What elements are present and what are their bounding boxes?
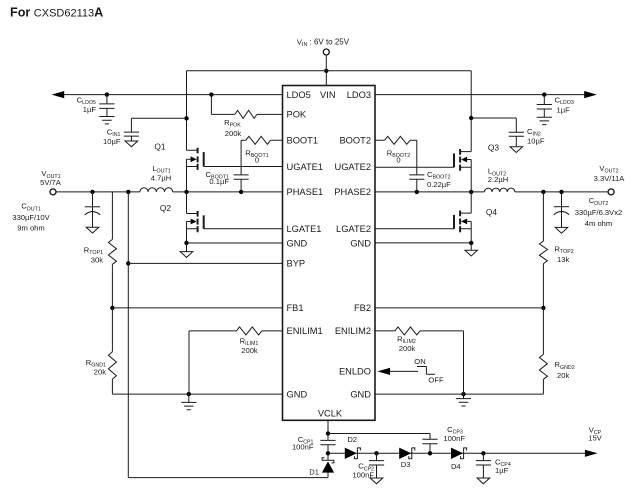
junction D1 node [326, 451, 330, 455]
wire FB1 [112, 307, 282, 309]
junction FB2 node [541, 306, 545, 310]
junction BYP branch tap [126, 190, 130, 194]
junction CCP2 node [374, 451, 378, 455]
ground (earth) CLDO3 [537, 117, 552, 124]
svg-text:VIN: VIN [320, 90, 336, 100]
pin label GND (left) [287, 389, 308, 399]
pin label VIN (top) [320, 90, 336, 100]
junction Q4 source/GND [469, 241, 473, 245]
junction CBOOT1 bottom [239, 190, 243, 194]
pin label BOOT2 (right) [339, 136, 371, 146]
value label RILIM1 200k [240, 336, 259, 354]
junction RTOP2 tap [541, 190, 545, 194]
svg-text:LDO5: LDO5 [287, 90, 311, 100]
value label RBOOT1 0 [245, 148, 268, 164]
wire POK branch [211, 95, 282, 115]
pin label GND (right) [350, 389, 371, 399]
node VCP arrow [585, 450, 598, 457]
svg-text:Q4: Q4 [486, 207, 498, 217]
junction COUT1 tap [90, 190, 94, 194]
svg-text:ENILIM2: ENILIM2 [335, 326, 371, 336]
svg-text:30k: 30k [91, 255, 103, 264]
pin label UGATE2 (right) [334, 162, 371, 172]
node VIN input terminal [297, 38, 350, 55]
ground (earth) left [181, 394, 196, 410]
pin label BYP (left) [287, 259, 306, 269]
wire Q4 drain from phase2 node [470, 192, 472, 213]
svg-text:1µF: 1µF [83, 105, 97, 114]
node LDO3 arrow (to load) [584, 91, 597, 98]
junction BYP row [126, 261, 130, 265]
svg-text:UGATE1: UGATE1 [287, 162, 324, 172]
svg-text:BYP: BYP [287, 259, 306, 269]
pin label PHASE2 (right) [334, 187, 371, 197]
pin label LGATE2 (right) [336, 224, 371, 234]
svg-text:For CXSD62113A: For CXSD62113A [10, 6, 103, 20]
capacitor CLDO5 [99, 95, 114, 117]
diode D3 (schottky) [399, 448, 415, 469]
ground (arrow) Q2 source [180, 243, 193, 257]
svg-text:0: 0 [396, 156, 400, 165]
junction GND/earth left [187, 392, 191, 396]
junction CLDO5 tap [105, 92, 109, 96]
wire Q3 source to phase2 node [470, 160, 472, 192]
junction CLDO3 tap [542, 92, 546, 96]
value label CIN2 10uF [527, 127, 545, 146]
resistor RBOOT1 [246, 136, 271, 144]
svg-text:D2: D2 [347, 435, 357, 444]
pin label LDO5 (left) [287, 90, 311, 100]
capacitor CLDO3 [537, 95, 552, 118]
junction VIN rail [324, 69, 328, 73]
svg-text:100nF: 100nF [352, 471, 374, 480]
svg-text:0.1µF: 0.1µF [209, 177, 229, 186]
wire VCLK to CCP3 top [328, 434, 430, 440]
svg-text:13k: 13k [557, 255, 569, 264]
pin label ENILIM2 (right) [335, 326, 371, 336]
wire LGATE1 gate lead [204, 228, 283, 230]
svg-text:200k: 200k [241, 346, 258, 355]
wire Q4 source to ground [470, 221, 472, 243]
inductor LOUT1 [140, 188, 173, 192]
ground (arrow) CCP2 [370, 478, 383, 484]
svg-text:0: 0 [255, 156, 259, 165]
svg-text:GND: GND [287, 238, 308, 248]
pin label GND (left) [287, 238, 308, 248]
junction RPOK tap [209, 92, 213, 96]
svg-text:PHASE1: PHASE1 [287, 187, 324, 197]
wire BOOT1 [241, 139, 282, 141]
value label RBOOT2 0 [387, 148, 410, 164]
node LDO5 arrow (to load) [52, 91, 65, 98]
svg-text:200k: 200k [225, 129, 242, 138]
transistor Q2 [160, 203, 204, 232]
junction FB1 node [110, 306, 114, 310]
wire Q2 source to ground [186, 222, 188, 244]
pin label LGATE1 (left) [287, 224, 322, 234]
svg-text:4m ohm: 4m ohm [585, 219, 612, 228]
value label RILIM2 200k [397, 335, 416, 354]
value label COUT2 330uF/6.3Vx2 4m ohm [575, 196, 622, 228]
pin label ENILIM1 (left) [287, 326, 323, 336]
wire BOOT2 [375, 139, 417, 141]
svg-text:1µF: 1µF [495, 466, 509, 475]
value label COUT1 330uF/10V 9m ohm [12, 202, 50, 233]
junction CCP3 bottom node [428, 451, 432, 455]
wire LDO3 output line [375, 94, 588, 96]
svg-text:3.3V/11A: 3.3V/11A [594, 174, 626, 183]
wire VCLK pin down [327, 420, 329, 440]
wire BYP vertical (to charge pump) [128, 192, 328, 478]
junction CIN2 tap [469, 116, 473, 120]
junction phase2 node [469, 190, 473, 194]
value label CCP3 100nF [443, 425, 465, 443]
svg-text:ON: ON [414, 357, 425, 366]
pin label BOOT1 (left) [287, 136, 319, 146]
svg-text:Q2: Q2 [160, 203, 172, 213]
capacitor CCP3 [422, 439, 437, 453]
svg-text:D1: D1 [309, 467, 319, 476]
ground (arrow) CIN2 [510, 147, 523, 153]
pin label ENLDO (right) [339, 367, 371, 377]
ground (arrow) COUT2 [555, 227, 568, 233]
title "For CXSD62113A" [10, 6, 103, 20]
svg-text:2.2µH: 2.2µH [488, 175, 508, 184]
wire ENLDO [388, 370, 418, 372]
wire charge pump rail [328, 452, 589, 454]
wire GND row (analog left) [112, 393, 282, 395]
svg-text:D3: D3 [401, 460, 411, 469]
value label RTOP1 30k [84, 245, 103, 264]
value label CLDO5 1uF [77, 96, 97, 114]
junction COUT2 tap [559, 190, 563, 194]
capacitor CBOOT1 [234, 175, 249, 179]
svg-text:10µF: 10µF [103, 137, 121, 146]
wire FB2 [375, 307, 543, 309]
value label RTOP2 13k [555, 245, 574, 265]
svg-text:330µF/6.3Vx2: 330µF/6.3Vx2 [575, 208, 622, 217]
capacitor CCP2 [369, 453, 384, 478]
junction phase1 node [184, 190, 188, 194]
value label LOUT1 4.7uH [151, 164, 171, 182]
value label RPOK 200k [224, 118, 241, 138]
junction CCP4 node [481, 451, 485, 455]
junction Q2 source/GND [184, 241, 188, 245]
ground (earth) CLDO5 [99, 117, 114, 124]
resistor RTOP2 [539, 241, 547, 264]
wire UGATE1 gate lead [204, 166, 283, 168]
capacitor COUT1 (polarized) [85, 192, 100, 227]
wire GND row (power stage left) [187, 242, 283, 244]
junction CIN1 tap [184, 116, 188, 120]
diode D1 (schottky, pointing up) [309, 453, 334, 477]
resistor RBOOT2 [385, 136, 411, 144]
resistor RGND1 [108, 308, 116, 394]
junction VCLK / CCP3 branch [326, 431, 330, 435]
wire Q2 drain from phase node [186, 192, 188, 214]
resistor RTOP1 [108, 239, 116, 264]
svg-text:100nF: 100nF [292, 443, 314, 452]
diode D4 (schottky) [451, 448, 467, 471]
resistor RPOK [235, 110, 257, 118]
capacitor CBOOT2 [409, 175, 424, 179]
wire RTOP1 vertical [111, 192, 113, 308]
svg-text:200k: 200k [399, 344, 416, 353]
value label CIN1 10uF [103, 127, 121, 145]
svg-text:ENILIM1: ENILIM1 [287, 326, 323, 336]
svg-text:UGATE2: UGATE2 [334, 162, 371, 172]
node ENLDO arrow into pin [378, 368, 391, 375]
svg-text:100nF: 100nF [443, 434, 465, 443]
wire GND row (power stage right) [375, 242, 471, 244]
capacitor COUT2 (polarized) [554, 192, 569, 228]
wire CIN2 branch [471, 117, 516, 119]
wire PHASE2 / VOUT2 row [375, 191, 608, 193]
wire RTOP2 vertical [542, 192, 544, 308]
wire VIN rail down to Q1 drain [186, 71, 188, 151]
resistor RGND2 [539, 308, 547, 394]
ground (arrow) CIN1 [125, 141, 138, 147]
node VOUT2 terminal [594, 164, 626, 195]
svg-text:Q3: Q3 [488, 143, 500, 153]
switch ON/OFF (ENLDO control) [414, 357, 444, 384]
wire Q1 source to phase node [186, 159, 188, 192]
wire CIN1 branch [131, 117, 186, 119]
svg-text:20k: 20k [94, 368, 106, 377]
svg-text:0.22µF: 0.22µF [427, 180, 451, 189]
op-amp U1 (controller IC body) [283, 86, 376, 421]
node VOUT1 terminal [40, 169, 62, 195]
value label CBOOT1 0.1uF [206, 170, 230, 186]
svg-text:OFF: OFF [428, 376, 444, 385]
svg-text:9m ohm: 9m ohm [17, 223, 44, 232]
pin label GND (right) [350, 238, 371, 248]
svg-text:PHASE2: PHASE2 [334, 187, 371, 197]
svg-text:FB1: FB1 [287, 303, 304, 313]
junction CBOOT2 bottom [415, 190, 419, 194]
value label CBOOT2 0.22uF [427, 170, 451, 189]
node VCP label 15V [588, 425, 602, 442]
transistor Q4 [454, 207, 497, 232]
ground (earth) right [456, 394, 471, 406]
wire VOUT1 / PHASE1 row [56, 191, 283, 193]
pin label POK (left) [287, 110, 307, 120]
wire UGATE2 gate lead [375, 166, 454, 168]
svg-text:330µF/10V: 330µF/10V [12, 213, 50, 222]
svg-text:ENLDO: ENLDO [339, 367, 371, 377]
capacitor CIN1 [124, 118, 139, 141]
svg-text:GND: GND [287, 389, 308, 399]
value label CCP4 1uF [495, 458, 511, 475]
capacitor CIN2 [509, 118, 524, 147]
wire ENILIM2 [375, 331, 464, 394]
wire GND row (analog right) [375, 393, 543, 395]
pin label UGATE1 (left) [287, 162, 324, 172]
svg-text:LGATE1: LGATE1 [287, 224, 322, 234]
diode D2 (schottky) [345, 435, 361, 459]
wire LDO5 output line [63, 94, 283, 96]
capacitor CCP1 [320, 440, 335, 453]
ground (arrow) Q4 source [465, 243, 478, 256]
wire BYP row [128, 262, 282, 264]
svg-text:LGATE2: LGATE2 [336, 224, 371, 234]
ground (arrow) CCP4 [477, 478, 490, 484]
capacitor CCP4 [476, 453, 491, 478]
junction GND/earth right [461, 392, 465, 396]
pin label LDO3 (right) [347, 90, 371, 100]
transistor Q1 [154, 141, 203, 170]
value label LOUT2 2.2uH [488, 167, 508, 184]
svg-text:Q1: Q1 [154, 141, 166, 151]
svg-text:GND: GND [350, 389, 371, 399]
svg-text:1µF: 1µF [557, 105, 571, 114]
svg-text:5V/7A: 5V/7A [40, 178, 62, 187]
svg-text:LDO3: LDO3 [347, 90, 371, 100]
resistor RILIM1 [236, 327, 261, 335]
svg-text:D4: D4 [451, 462, 461, 471]
pin label FB2 (right) [354, 303, 371, 313]
wire VIN terminal to VIN pin [325, 55, 327, 86]
value label CCP1 100nF [292, 435, 314, 452]
transistor Q3 [454, 143, 499, 171]
svg-text:15V: 15V [588, 433, 602, 442]
pin label PHASE1 (left) [287, 187, 324, 197]
svg-text:POK: POK [287, 110, 307, 120]
pin label VCLK (bottom) [318, 408, 343, 418]
ground (arrow) COUT1 [86, 227, 99, 233]
wire VIN top rail [187, 70, 472, 72]
svg-text:FB2: FB2 [354, 303, 371, 313]
svg-text:BOOT1: BOOT1 [287, 136, 319, 146]
wire VIN rail down to Q3 drain [470, 71, 472, 152]
wire CBOOT1 vertical [240, 140, 242, 192]
value label RGND2 20k [555, 360, 575, 380]
svg-text:4.7µH: 4.7µH [151, 173, 171, 182]
svg-text:GND: GND [350, 238, 371, 248]
value label CLDO3 1uF [555, 96, 574, 115]
wire CBOOT2 vertical [416, 140, 418, 192]
svg-text:10µF: 10µF [527, 137, 545, 146]
resistor RILIM2 [395, 327, 420, 335]
inductor LOUT2 [485, 188, 515, 192]
svg-text:20k: 20k [557, 371, 569, 380]
value label CCP2 100nF [352, 462, 374, 480]
pin label FB1 (left) [287, 303, 304, 313]
wire LGATE2 gate lead [375, 228, 454, 230]
svg-text:VCLK: VCLK [318, 408, 343, 418]
value label RGND1 20k [86, 358, 106, 377]
wire ENILIM1 [189, 331, 283, 394]
svg-text:BOOT2: BOOT2 [339, 136, 371, 146]
